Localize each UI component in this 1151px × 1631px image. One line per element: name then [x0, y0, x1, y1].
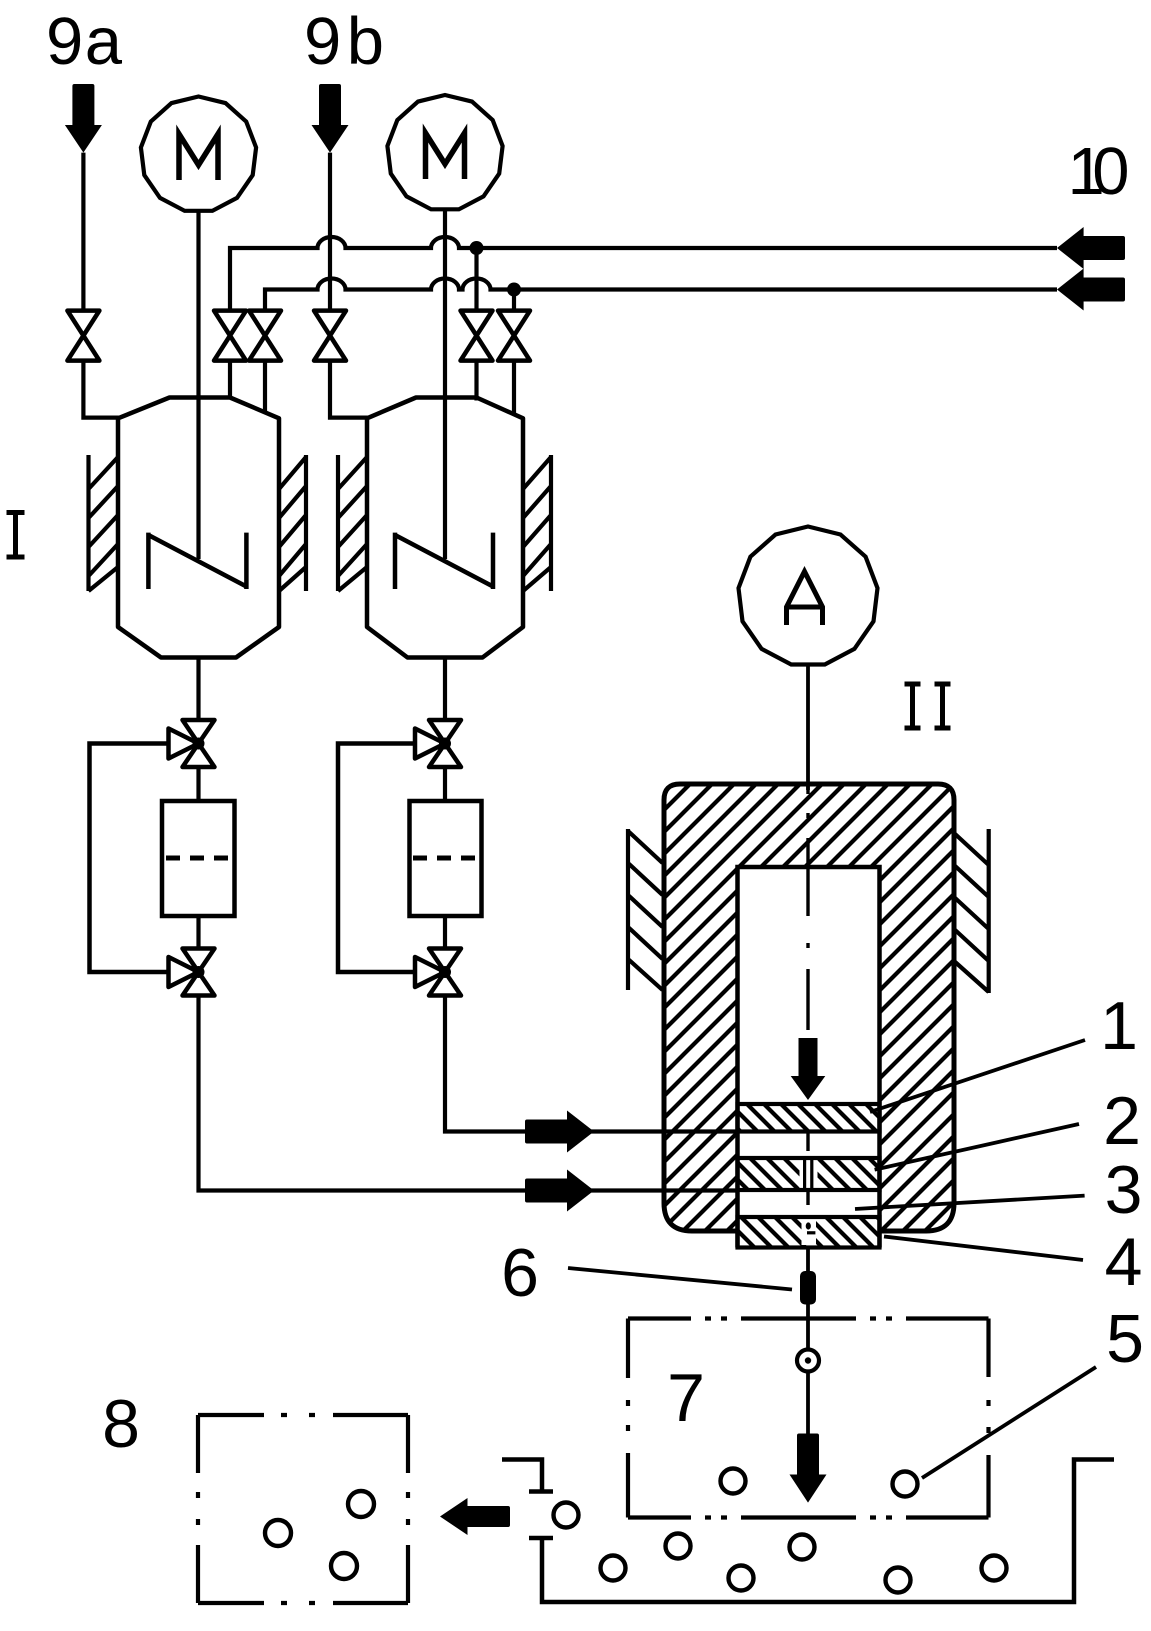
wire valve T1a to pump P1: [196, 767, 200, 801]
wire pump P1 to valve T1b: [196, 916, 200, 949]
three-way valve T2a: [415, 720, 461, 767]
pellet in bath e: [886, 1568, 911, 1593]
wire valve x514 to reactor R2 shoulder: [512, 361, 516, 414]
wire die exit: [806, 1248, 810, 1351]
wire junction to valve x514: [512, 290, 516, 311]
wire cutter to drop arrow: [806, 1371, 810, 1436]
die head block II body: [664, 784, 954, 1231]
ram arrow in bore: [791, 1038, 826, 1100]
pellet in bath f: [982, 1556, 1007, 1581]
pellet at outlet: [554, 1503, 579, 1528]
stirrer shaft R1: [196, 211, 200, 559]
collecting frame 7 top edge: [628, 1316, 989, 1320]
wire valve T2a to pump P2: [443, 767, 447, 801]
wire 9a valve to reactor R1: [83, 361, 120, 418]
wire pump P2 to valve T2b: [443, 916, 447, 949]
metering pump P2: [410, 801, 482, 916]
wire valve x265 to reactor R1 shoulder: [263, 361, 267, 414]
three-way valve T1b: [169, 949, 215, 996]
outlet pipe R1: [196, 658, 200, 721]
leader 2: [875, 1124, 1079, 1170]
flow arrow into die head upper: [525, 1111, 594, 1153]
pellet in frame 7 a: [721, 1469, 746, 1494]
leader 3: [855, 1196, 1085, 1209]
feed arrow 10 upper: [1057, 227, 1125, 269]
pellet in bath d: [790, 1535, 815, 1560]
feed arrow 9a: [65, 84, 102, 153]
valve V-9a: [67, 311, 99, 361]
bypass loop train 2: [338, 744, 415, 973]
bypass loop train 1: [90, 744, 169, 973]
heating jacket R2 left: [338, 455, 367, 591]
svg-text:8: 8: [102, 1386, 140, 1462]
wire 9a drop to valve: [81, 153, 85, 311]
leader 6: [568, 1268, 792, 1290]
wire A to die head: [806, 665, 810, 791]
svg-text:6: 6: [501, 1235, 539, 1311]
three-way valve T1a: [169, 720, 215, 767]
die head bore cavity: [738, 867, 880, 1248]
junction dot upper bus: [470, 241, 484, 255]
collecting frame 7 right edge: [986, 1319, 990, 1518]
collecting frame 7 bottom edge: [628, 1515, 989, 1519]
wire valve x476 to reactor R2 top: [474, 361, 478, 401]
reactor R1 vessel: [118, 398, 279, 658]
wire valve x230 to reactor R1 top: [228, 361, 232, 399]
three-way valve T2b: [415, 949, 461, 996]
heating jacket R1 left: [89, 455, 119, 591]
storage frame 8 left edge: [196, 1415, 200, 1603]
wire 9b valve to reactor R2: [330, 361, 369, 418]
wire junction to valve x476: [474, 248, 478, 311]
impeller R1: [148, 533, 246, 589]
leader 5: [922, 1367, 1096, 1478]
motor M1: [141, 97, 256, 211]
piston plate 1: [738, 1104, 880, 1132]
outlet pipe R2: [443, 658, 447, 721]
svg-text:10: 10: [1068, 134, 1130, 209]
junction dot lower bus: [507, 283, 521, 297]
feed arrow 9b: [312, 84, 349, 153]
pellet in bath c: [729, 1566, 754, 1591]
valve x230: [214, 311, 246, 361]
valve x476: [461, 311, 493, 361]
pellet in bath a: [601, 1556, 626, 1581]
cutter wheel: [797, 1350, 819, 1372]
feed arrow 10 lower: [1057, 269, 1125, 311]
pellet in frame 8 b: [348, 1491, 374, 1517]
svg-text:1: 1: [1100, 988, 1138, 1064]
svg-text:7: 7: [667, 1360, 705, 1436]
strand guide 6: [800, 1271, 816, 1305]
svg-text:5: 5: [1106, 1301, 1144, 1377]
svg-text:4: 4: [1105, 1224, 1143, 1300]
flow arrow into die head lower: [525, 1170, 594, 1212]
valve x265: [249, 311, 281, 361]
collecting frame 7 left edge: [626, 1319, 630, 1518]
motor M2: [387, 95, 502, 209]
storage frame 8 top edge: [198, 1413, 408, 1417]
heating jacket II left: [628, 829, 663, 990]
impeller R2: [395, 533, 493, 589]
svg-text:2: 2: [1103, 1083, 1141, 1159]
storage frame 8 right edge: [406, 1415, 410, 1603]
centre line chamber 3: [806, 1192, 809, 1205]
valve x514: [498, 311, 530, 361]
heating jacket R1 right: [279, 455, 306, 591]
pellet in frame 8 a: [265, 1520, 291, 1546]
nozzle plate 2: [738, 1158, 880, 1190]
feed pipe train 2 to die head: [445, 996, 736, 1132]
centre line gap 1: [806, 1132, 809, 1152]
leader 4: [884, 1237, 1083, 1261]
orifice plate 4: [738, 1217, 880, 1248]
label I: [7, 513, 25, 558]
wire 9b drop to valve: [328, 153, 332, 311]
svg-text:9a: 9a: [46, 4, 123, 79]
drop arrow into bath: [790, 1434, 827, 1503]
pellet in frame 7 b: [893, 1472, 918, 1497]
analyzer A: [739, 527, 878, 665]
leader 1: [870, 1040, 1085, 1112]
storage frame 8 bottom edge: [198, 1601, 408, 1605]
bus line 10 upper: [230, 237, 1057, 311]
outflow arrow to tank 8: [440, 1498, 510, 1535]
feed pipe train 1 to die head: [199, 996, 737, 1191]
stirrer shaft R2: [443, 209, 447, 559]
svg-text:3: 3: [1105, 1152, 1143, 1228]
centre line in bore: [806, 784, 809, 1030]
heating jacket II right: [954, 829, 989, 993]
valve V-9b: [314, 311, 346, 361]
water bath tank outline: [502, 1460, 1114, 1603]
label II: [905, 684, 951, 728]
pellet in frame 8 c: [331, 1553, 357, 1579]
pellet in bath b: [666, 1534, 691, 1559]
bus line 10 lower: [265, 279, 1057, 311]
reactor R2 vessel: [367, 398, 523, 658]
heating jacket R2 right: [523, 455, 551, 591]
metering pump P1: [162, 801, 235, 916]
